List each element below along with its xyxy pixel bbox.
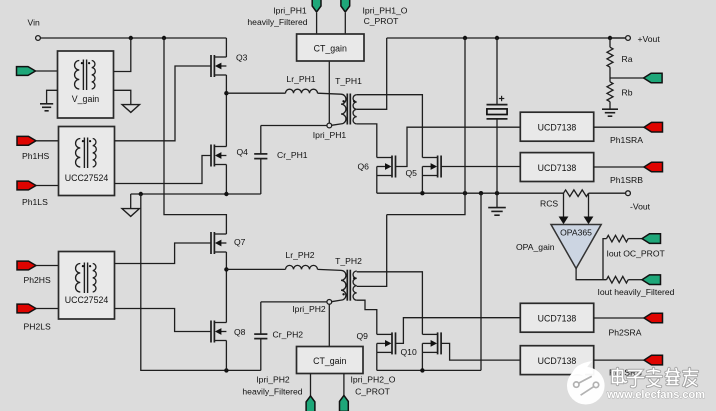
wire T_PH1 sec bottom to Q6 (357, 124, 377, 158)
wire Vin branch to Q7 drain (164, 38, 226, 234)
wire Ipri_PH2 riser to CT_gain (328, 304, 330, 346)
resistor Rb (607, 82, 613, 102)
node junction RCS branch (479, 191, 483, 195)
wire Q10 source to SR rail2 (421, 352, 423, 370)
svg-text:heavily_Filtered: heavily_Filtered (242, 387, 302, 397)
wire switch node1 to Lr_PH1 (226, 92, 285, 94)
svg-text:Ra: Ra (622, 54, 633, 64)
node switch node 2 (224, 267, 228, 271)
capacitor C out (electrolytic) (496, 38, 498, 104)
transformer block V_gain (58, 51, 114, 118)
svg-text:C_PROT: C_PROT (364, 16, 400, 26)
transistor Q10 (437, 332, 439, 354)
svg-text:UCD7138: UCD7138 (538, 163, 577, 173)
svg-text:Q4: Q4 (237, 147, 249, 157)
svg-text:UCD7138: UCD7138 (538, 123, 577, 133)
wire Q7 source / Q8 drain (switch node 2) (225, 252, 227, 323)
node junction cap ground (495, 191, 499, 195)
block U4 UCD7138 (520, 153, 593, 182)
connector Ph2SRB (red) (644, 355, 663, 365)
wire OPA output (576, 269, 606, 280)
op-amp U5 OPA365 (551, 225, 601, 269)
wire T_PH2 center tap to +Vout (357, 215, 387, 287)
connector PH2LS (red) (17, 304, 36, 313)
wire Q9 gate to UCD7138 (396, 318, 521, 344)
transistor Q8 (210, 321, 212, 343)
block U7 UCD7138 (520, 346, 593, 375)
wire UCD7138 to Ph2SRB (594, 359, 644, 361)
wire T_PH2 sec top to Q10 (357, 272, 423, 335)
transistor Q9 (391, 332, 393, 354)
connector Ph1SRB (red) (644, 162, 663, 172)
wire Q4 source down (225, 165, 227, 195)
connector Ph1SRA (red) (644, 122, 663, 132)
wire Ph2HS to UCC27524 (36, 265, 59, 267)
transistor Q7 (210, 232, 212, 254)
svg-text:Lr_PH2: Lr_PH2 (285, 250, 314, 260)
svg-text:PH2LS: PH2LS (24, 322, 51, 332)
transistor Q4 (210, 145, 212, 167)
svg-text:Ph2SRA: Ph2SRA (609, 328, 642, 338)
wire V_gain right-bottom to ground (114, 90, 131, 104)
wire V_gain left-bottom to ground (47, 90, 58, 104)
transformer T_PH1 (341, 94, 346, 124)
wire SR rail2 riser (480, 193, 482, 370)
svg-text:Ph1SRA: Ph1SRA (610, 135, 643, 145)
transistor Q3 (210, 55, 212, 77)
wire ground net vertical to phase2 (141, 194, 261, 370)
wire SR ground rail PH2 (377, 369, 481, 371)
resistor Ra (609, 38, 611, 47)
wire Q8 source down (225, 341, 227, 371)
driver U1 UCC27524 (phase1) (59, 127, 115, 196)
wire Ph1HS to UCC27524 (36, 140, 59, 142)
svg-text:Ph1SRB: Ph1SRB (610, 175, 643, 185)
wire T_PH2 sec bottom to Q9 (357, 300, 377, 334)
wire T_PH1 sec top to Q5 (357, 95, 423, 158)
wire switch node2 to Lr_PH2 (226, 268, 285, 270)
svg-text:Rb: Rb (622, 88, 633, 98)
transformer T_PH2 (341, 270, 346, 300)
svg-text:CT_gain: CT_gain (314, 44, 347, 54)
svg-text:Q9: Q9 (357, 331, 369, 341)
watermark logo elecfans (567, 361, 705, 405)
node junction cap branch (495, 36, 499, 40)
node junction ground/vertical (139, 192, 143, 196)
wire T_PH1 center tap to +Vout rail (357, 38, 387, 109)
connector Iout OC_PROT (green) (642, 234, 661, 244)
block U3 UCD7138 (520, 112, 593, 141)
wire Q9 source to SR rail2 (376, 352, 378, 370)
svg-text:Ph1LS: Ph1LS (22, 197, 48, 207)
wire to Iout heavily_Filtered (628, 279, 642, 281)
wire Q6 gate to UCD7138 (396, 127, 521, 166)
wire Ph1LS to UCC27524 (36, 185, 59, 187)
connector Ipri_PH1_O C_PROT (green) (341, 0, 350, 12)
wire UCC27524 HS out to Q7 gate (115, 243, 211, 264)
wire UCC27524 HS out to Q3 gate (115, 66, 211, 141)
wire sense left arrow (563, 193, 565, 217)
node junction Ra branch (608, 36, 612, 40)
wire Q5 source to SR rail (421, 176, 423, 194)
wire UCD7138 to Ph2SRA (594, 317, 644, 319)
svg-text:Ipri_PH1: Ipri_PH1 (313, 130, 347, 140)
connector Ph1LS (red) (17, 181, 36, 190)
wire phase2 CT link (387, 193, 465, 214)
capacitor Cr_PH2 (254, 333, 267, 335)
wire Ipri_PH2 node (261, 301, 327, 303)
wire Lr_PH2 to T_PH2 (318, 269, 342, 270)
wire Q10 gate to UCD7138 (441, 343, 520, 360)
node Ipri_PH2 (open) (327, 300, 332, 305)
svg-text:Cr_PH1: Cr_PH1 (277, 150, 308, 160)
svg-text:Iout heavily_Filtered: Iout heavily_Filtered (598, 287, 675, 297)
svg-text:www.elecfans.com: www.elecfans.com (606, 389, 705, 401)
wire green arrow to V_gain (36, 70, 58, 72)
node junction +Vout link (463, 191, 467, 195)
svg-text:RCS: RCS (540, 199, 558, 209)
wire +Vout rail (387, 37, 626, 39)
block CT_gain (phase1) (297, 34, 364, 61)
svg-text:Iout OC_PROT: Iout OC_PROT (607, 249, 666, 259)
node junction Q8 source (224, 368, 228, 372)
svg-text:Ph1HS: Ph1HS (22, 151, 49, 161)
svg-text:Q10: Q10 (401, 347, 417, 357)
svg-text:OPA_gain: OPA_gain (516, 242, 555, 252)
ground earth (output) (496, 193, 498, 207)
svg-text:Ipri_PH1: Ipri_PH1 (273, 6, 307, 16)
node junction Vin/V_gain (129, 36, 133, 40)
connector Ipri_PH1 heavily_Filtered (green) (312, 0, 321, 12)
wire mid ground net PH1 (131, 193, 261, 195)
svg-text:Q6: Q6 (358, 162, 370, 172)
wire V_gain right-top to Vin rail (114, 38, 131, 72)
svg-text:C_PROT: C_PROT (355, 387, 391, 397)
inductor Lr_PH1 (286, 89, 318, 93)
svg-text:Vin: Vin (28, 18, 40, 28)
wire Ipri_PH1 node (261, 125, 327, 127)
node +Vout terminal (626, 36, 631, 41)
node junction Q4 source (224, 192, 228, 196)
wire RCS to -Vout (589, 192, 626, 194)
svg-text:T_PH1: T_PH1 (335, 76, 362, 86)
wire Cr_PH1 bottom to ground net (260, 159, 262, 194)
node Ipri_PH1 (open) (327, 123, 332, 128)
svg-text:Lr_PH1: Lr_PH1 (286, 74, 315, 84)
wire Cr_PH2 bottom riser (260, 339, 262, 371)
resistor R filtered (607, 276, 629, 283)
resistor R OC_PROT (607, 235, 629, 242)
svg-text:UCC27524: UCC27524 (65, 295, 109, 305)
svg-text:UCC27524: UCC27524 (65, 173, 109, 183)
svg-text:Q8: Q8 (234, 327, 246, 337)
capacitor Cr_PH1 (254, 153, 267, 155)
ground triangle (mid) (122, 209, 139, 217)
svg-text:UCD7138: UCD7138 (538, 314, 577, 324)
node Vin terminal (36, 36, 41, 41)
wire jog to triangle ground (130, 194, 132, 209)
svg-text:CT_gain: CT_gain (313, 356, 346, 366)
wire Q5 gate to UCD7138 (441, 166, 520, 168)
connector Ipri_PH2_O C_PROT (green) (340, 395, 349, 411)
wire Ra-Rb node (609, 67, 611, 82)
wire +Vout to SR rail link (464, 38, 466, 193)
wire Q3 source / Q4 drain (switch node 1) (225, 75, 227, 147)
svg-text:Ph2HS: Ph2HS (24, 275, 51, 285)
svg-text:T_PH2: T_PH2 (335, 256, 362, 266)
svg-text:Ipri_PH2: Ipri_PH2 (292, 304, 326, 314)
wire UCC27524 LS out to Q8 gate (115, 309, 211, 332)
svg-text:Q3: Q3 (236, 53, 248, 63)
ground triangle (V_gain right) (122, 105, 139, 113)
wire UCD7138 to Ph1SRB (594, 166, 644, 168)
wire to Iout OC_PROT (628, 238, 642, 240)
wire Ipri_PH1 riser to CT_gain (328, 61, 330, 123)
svg-text:Q7: Q7 (234, 237, 246, 247)
wire CT_gain1 stems (316, 13, 318, 34)
wire Lr_PH1 to T_PH1 (318, 93, 342, 94)
transistor Q6 (391, 156, 393, 178)
wire Cr_PH2 top to Ipri node (260, 302, 262, 334)
transistor Q5 (437, 156, 439, 178)
wire Vin rail (40, 37, 226, 39)
connector Iout heavily_Filtered (green) (642, 275, 661, 285)
svg-text:Ipri_PH1_O: Ipri_PH1_O (363, 6, 408, 16)
node junction vertical link (463, 36, 467, 40)
node junction Q5 source (420, 191, 424, 195)
connector Ph1HS (red) (17, 136, 36, 145)
wire UCD7138 to Ph1SRA (594, 126, 644, 128)
block CT_gain (phase2) (297, 347, 364, 374)
wire UCC27524 LS out to Q4 gate (115, 156, 211, 184)
node -Vout terminal (626, 191, 631, 196)
svg-text:Q5: Q5 (406, 168, 418, 178)
inductor Lr_PH2 (286, 265, 318, 269)
svg-text:heavily_Filtered: heavily_Filtered (247, 17, 307, 27)
ground earth (Rb) (609, 102, 611, 109)
connector Ph2HS (red) (17, 261, 36, 270)
wire Q6 source to SR rail (376, 176, 378, 194)
block U6 UCD7138 (520, 303, 593, 332)
node junction Vin/phase2 (162, 36, 166, 40)
driver U2 UCC27524 (phase2) (59, 252, 115, 320)
svg-text:UCD7138: UCD7138 (538, 356, 577, 366)
wire CT_gain2 stems (310, 374, 312, 397)
svg-text:+Vout: +Vout (638, 34, 661, 44)
ground earth (V_gain left) (40, 103, 53, 105)
node switch node 1 (224, 91, 228, 95)
svg-text:Ipri_PH2_O: Ipri_PH2_O (351, 375, 396, 385)
svg-text:Cr_PH2: Cr_PH2 (273, 330, 304, 340)
connector Vsense (green) (644, 73, 663, 83)
svg-text:V_gain: V_gain (72, 94, 99, 104)
wire Q3 drain to Vin rail (225, 38, 227, 57)
svg-text:-Vout: -Vout (630, 202, 651, 212)
connector V_gain input (green) (17, 67, 36, 76)
resistor RCS (564, 190, 589, 197)
svg-text:Ipri_PH2: Ipri_PH2 (256, 375, 290, 385)
svg-text:OPA365: OPA365 (560, 228, 592, 238)
node junction Q10 source (420, 368, 424, 372)
wire sense right arrow (588, 193, 590, 217)
wire PH2LS to UCC27524 (36, 308, 59, 310)
connector Ipri_PH2 heavily_Filtered (green) (306, 396, 315, 411)
wire SR ground rail PH1 (377, 192, 564, 194)
connector Ph2SRA (red) (644, 313, 663, 323)
wire Cr_PH1 top to Ipri node (260, 126, 262, 154)
